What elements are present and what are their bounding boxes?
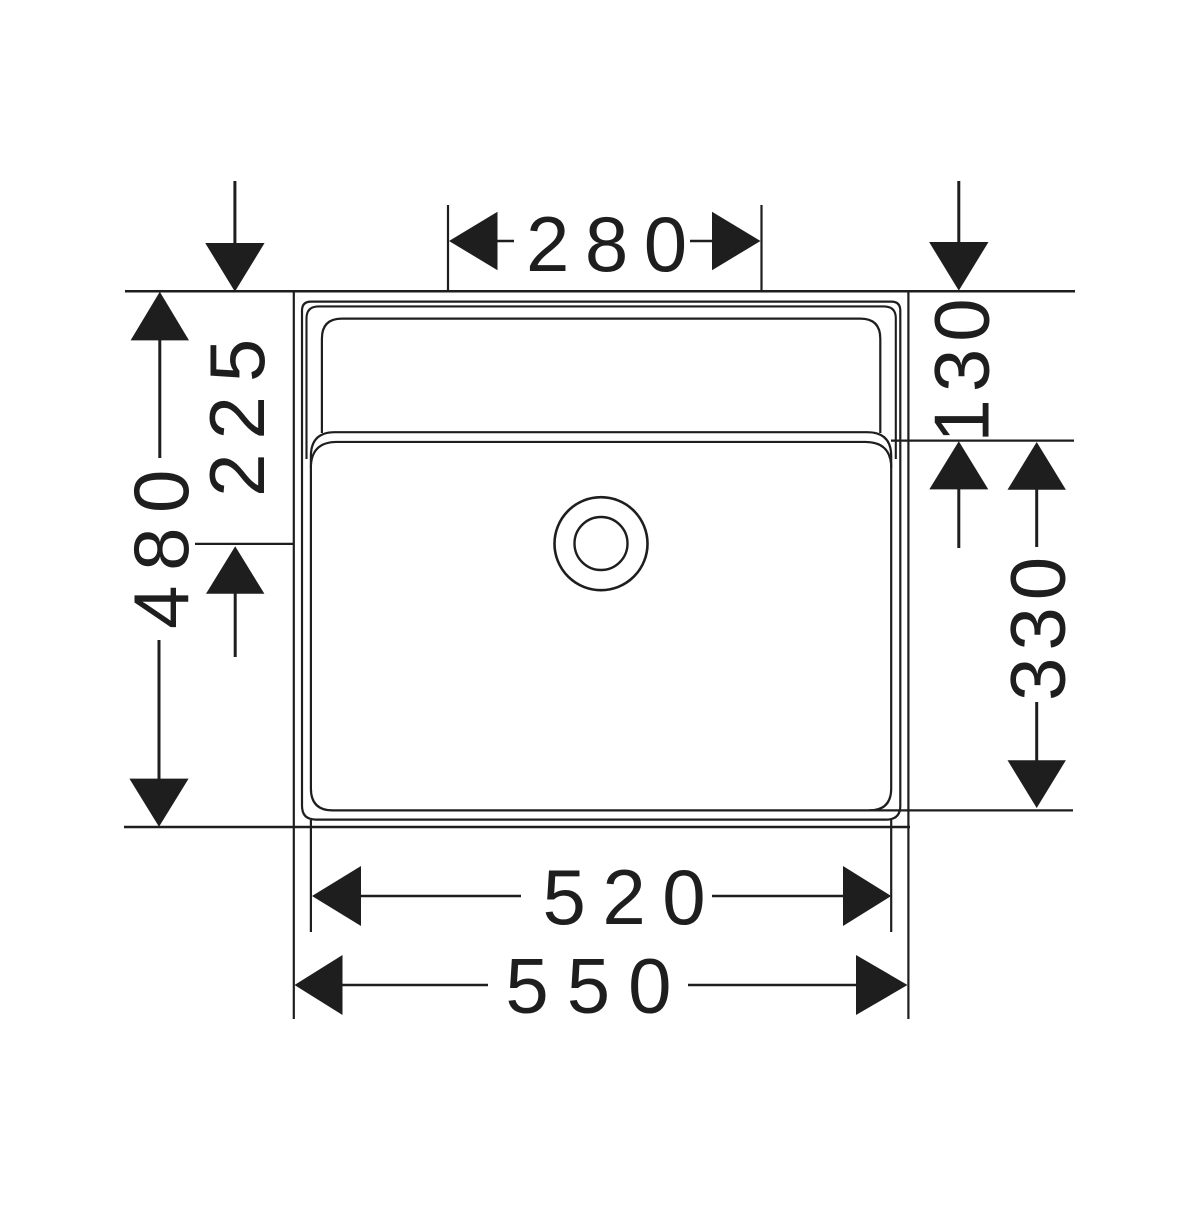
svg-text:550: 550 xyxy=(505,942,689,1030)
dim 550 arrowhead right xyxy=(856,955,908,1015)
dim 280 tick right xyxy=(760,205,762,291)
dim 480 lower arrowhead (down) xyxy=(129,779,188,827)
svg-text:225: 225 xyxy=(193,325,281,497)
dim 225 lower arrow tail xyxy=(234,592,237,657)
wire basin bottom extension line right xyxy=(869,809,1073,811)
sink outer outline xyxy=(302,302,900,820)
svg-text:480: 480 xyxy=(117,455,205,629)
wire 520 extension left xyxy=(310,820,312,932)
dim 520 leader right xyxy=(712,895,845,898)
dim 330 upper arrowhead (up) xyxy=(1008,442,1066,490)
svg-text:330: 330 xyxy=(993,550,1081,701)
deck inner recess outline xyxy=(322,319,880,433)
dim 330 upper arrow tail xyxy=(1035,488,1038,547)
dim 330 lower arrowhead (down) xyxy=(1008,760,1066,808)
dim 130 lower arrow tail xyxy=(957,488,960,548)
dim 130 upper arrowhead (down) xyxy=(929,242,988,291)
dim 280 leader right xyxy=(690,240,713,243)
wire top reference line xyxy=(125,290,1075,293)
wire deck step extension line right xyxy=(891,440,1074,442)
drain inner circle xyxy=(575,517,628,570)
dim 520 leader left xyxy=(360,895,521,898)
svg-text:520: 520 xyxy=(542,853,722,941)
wire 520 extension right xyxy=(890,820,892,932)
dim 225 lower arrowhead (up) xyxy=(206,546,264,594)
dim 520 arrowhead left xyxy=(312,866,361,926)
dim 480 upper arrow tail xyxy=(158,339,161,458)
dim 130 lower arrowhead (up) xyxy=(929,441,988,489)
dim 330 lower arrow tail xyxy=(1035,702,1038,762)
dim 225 lower tick xyxy=(195,543,293,545)
basin outline xyxy=(311,432,891,810)
deck raised outline xyxy=(307,306,896,459)
dim 225 upper pointer tail xyxy=(233,181,236,245)
dim 280 arrowhead right xyxy=(712,212,761,270)
basin step lower line xyxy=(311,442,891,468)
dim 480 upper arrowhead (up) xyxy=(131,292,189,341)
dim 280 arrowhead left xyxy=(449,212,498,270)
dim 280 tick left xyxy=(447,205,449,291)
dim 280 leader left xyxy=(495,240,514,243)
dim 550 leader right xyxy=(688,984,856,987)
dim 550 leader left xyxy=(341,984,488,987)
dim 550 arrowhead left xyxy=(295,955,343,1015)
wire right outer edge vertical xyxy=(907,291,909,1019)
dim 130 upper pointer tail xyxy=(957,181,960,245)
svg-text:280: 280 xyxy=(526,200,703,288)
svg-text:130: 130 xyxy=(918,291,1006,442)
dim 225 upper arrowhead (down) xyxy=(205,243,264,292)
drain outer circle xyxy=(555,497,648,590)
wire left outer edge vertical xyxy=(293,291,295,1019)
dim 520 arrowhead right xyxy=(843,866,891,926)
dim 480 lower arrow tail xyxy=(158,640,161,780)
wire bottom reference line xyxy=(124,826,910,829)
